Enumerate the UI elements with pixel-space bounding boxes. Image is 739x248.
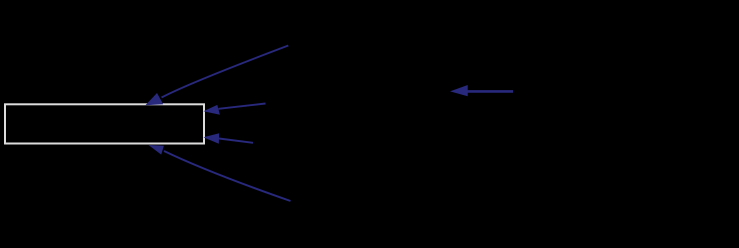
arrow right-lower xyxy=(203,133,253,144)
arrow right-upper xyxy=(203,104,265,115)
arrow bottom-curved xyxy=(149,145,291,201)
arrow standalone-right xyxy=(450,85,513,96)
arrow top-curved xyxy=(145,46,288,106)
box (gray outlined rectangle) xyxy=(5,104,204,143)
